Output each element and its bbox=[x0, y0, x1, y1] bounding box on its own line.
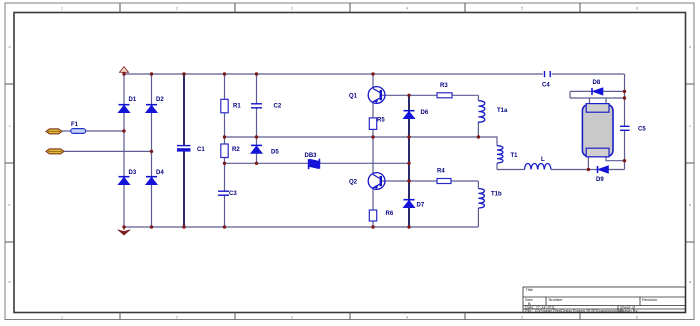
svg-text:D8: D8 bbox=[593, 80, 601, 86]
svg-text:b: b bbox=[9, 203, 11, 207]
connector P1 upper plug bbox=[46, 129, 62, 134]
wire second bridge rail bbox=[151, 74, 153, 227]
svg-text:Drawn By:: Drawn By: bbox=[620, 308, 638, 313]
node diac net 3 bbox=[407, 162, 410, 165]
svg-text:c: c bbox=[689, 124, 691, 128]
wire left bridge rail bbox=[123, 74, 125, 227]
svg-text:Title: Title bbox=[526, 287, 534, 292]
node mid rail 2 bbox=[255, 135, 258, 138]
resistor R6 bbox=[369, 210, 376, 221]
svg-text:D1: D1 bbox=[129, 97, 137, 103]
svg-text:3: 3 bbox=[291, 7, 293, 11]
resistor R5 bbox=[369, 118, 376, 129]
wire C2 upper lead bbox=[256, 74, 258, 104]
inductor T1a bbox=[478, 101, 484, 123]
wire diac net bbox=[225, 162, 410, 164]
svg-text:Q1: Q1 bbox=[349, 94, 358, 100]
svg-text:1: 1 bbox=[61, 7, 63, 11]
title block texts bbox=[525, 287, 657, 313]
svg-text:File:: File: bbox=[525, 308, 533, 313]
diode D5 bbox=[251, 145, 262, 153]
svg-text:D9: D9 bbox=[596, 177, 604, 183]
lamp filament bottom bbox=[586, 148, 609, 157]
svg-text:1: 1 bbox=[61, 316, 63, 320]
node bottom rail 6 bbox=[407, 225, 410, 228]
node top rail 3 bbox=[182, 72, 185, 75]
wire lamp bottom left bbox=[497, 169, 525, 171]
svg-text:c: c bbox=[9, 124, 11, 128]
node diac net 1 bbox=[223, 162, 226, 165]
svg-text:d: d bbox=[9, 45, 11, 49]
title block bbox=[523, 287, 686, 313]
wire Q2 base net bbox=[381, 180, 479, 182]
wire Q1 emitter R5 bbox=[372, 102, 374, 138]
zone tick left 2 bbox=[5, 162, 14, 164]
svg-text:6: 6 bbox=[636, 7, 638, 11]
svg-text:C3: C3 bbox=[229, 191, 237, 197]
zone tick bottom 5 bbox=[579, 313, 581, 320]
wire lamp top pin right bbox=[605, 98, 607, 105]
wire upper input bbox=[62, 130, 124, 132]
svg-text:D4: D4 bbox=[156, 170, 164, 176]
node bottom rail 3 bbox=[182, 225, 185, 228]
svg-text:Revision: Revision bbox=[642, 297, 657, 302]
diode D9 bbox=[598, 166, 609, 173]
lamp filament top bbox=[586, 104, 609, 113]
capacitor C1 electrolytic bbox=[177, 146, 191, 152]
svg-text:T1b: T1b bbox=[491, 192, 502, 198]
svg-text:b: b bbox=[689, 203, 691, 207]
svg-text:C1: C1 bbox=[197, 147, 205, 153]
node lamp top 2 bbox=[623, 96, 626, 99]
capacitor C4 bbox=[545, 71, 551, 77]
wire right rail lower bbox=[624, 131, 626, 170]
node bottom rail 5 bbox=[371, 225, 374, 228]
capacitor C5 bbox=[620, 126, 630, 130]
svg-text:D6: D6 bbox=[421, 110, 429, 116]
wire mid rail bbox=[225, 136, 479, 138]
node bottom rail 2 bbox=[150, 225, 153, 228]
wire R1 R2 rail bbox=[224, 74, 226, 191]
zone labels top bbox=[61, 7, 638, 11]
svg-text:D3: D3 bbox=[129, 170, 137, 176]
diode D6 bbox=[404, 111, 415, 119]
node top rail 5 bbox=[255, 72, 258, 75]
transistor Q1 bbox=[368, 87, 385, 104]
svg-text:d: d bbox=[689, 45, 691, 49]
inductor T1b bbox=[478, 189, 484, 208]
wire C3 lower lead bbox=[224, 196, 226, 228]
inductor T1 bbox=[497, 146, 503, 163]
diode D8 bbox=[592, 88, 603, 95]
svg-text:5: 5 bbox=[521, 7, 523, 11]
node top rail 2 bbox=[150, 72, 153, 75]
diode D4 bbox=[146, 177, 157, 185]
node bridge upper input bbox=[122, 129, 125, 132]
zone tick left 3 bbox=[5, 241, 14, 243]
diode D3 bbox=[119, 177, 130, 185]
resistor R4 bbox=[437, 179, 451, 184]
zone tick top 1 bbox=[119, 3, 121, 13]
inductor L bbox=[525, 164, 551, 170]
wire lamp top pin left bbox=[589, 98, 591, 105]
svg-text:R6: R6 bbox=[386, 211, 394, 217]
svg-text:C4: C4 bbox=[542, 83, 550, 89]
svg-text:C5: C5 bbox=[638, 127, 646, 133]
wire Q1 base net bbox=[381, 94, 479, 96]
svg-text:D7: D7 bbox=[417, 203, 425, 209]
capacitor C3 bbox=[218, 191, 229, 195]
diode D1 bbox=[119, 105, 130, 113]
resistor R1 bbox=[221, 99, 228, 113]
svg-text:6: 6 bbox=[636, 316, 638, 320]
svg-text:Number: Number bbox=[549, 297, 564, 302]
zone tick right 2 bbox=[686, 162, 695, 164]
zone labels left bbox=[9, 45, 11, 284]
svg-text:T1a: T1a bbox=[497, 108, 508, 114]
node top rail 1 bbox=[122, 72, 125, 75]
wire lamp bottom right bbox=[551, 169, 625, 171]
svg-text:C2: C2 bbox=[274, 104, 282, 110]
zone tick bottom 1 bbox=[119, 313, 121, 320]
svg-text:T1: T1 bbox=[511, 153, 519, 159]
zone tick top 5 bbox=[579, 3, 581, 13]
svg-text:R4: R4 bbox=[437, 169, 445, 175]
svg-text:D:\Program Files\Design Explor: D:\Program Files\Design Explorer 99 SE\E… bbox=[535, 309, 623, 313]
svg-text:4: 4 bbox=[406, 316, 408, 320]
zone tick bottom 4 bbox=[464, 313, 466, 320]
ground bbox=[118, 227, 131, 235]
node mid rail 3 bbox=[371, 135, 374, 138]
zone tick bottom 2 bbox=[234, 313, 236, 320]
node mid rail 4 bbox=[407, 135, 410, 138]
svg-text:Q2: Q2 bbox=[349, 180, 358, 186]
transistor Q2 bbox=[368, 173, 385, 190]
node lamp bottom left bbox=[587, 168, 590, 171]
resistor R2 bbox=[221, 144, 228, 158]
zone labels bottom bbox=[61, 316, 638, 320]
node Q1 base bbox=[407, 94, 410, 97]
zone tick right 3 bbox=[686, 241, 695, 243]
svg-text:D5: D5 bbox=[271, 150, 279, 156]
wire right rail upper bbox=[624, 74, 626, 126]
wire C1 rail lower bbox=[183, 152, 185, 228]
lamp tube bbox=[582, 105, 613, 157]
node lamp top 1 bbox=[623, 90, 626, 93]
wire Q2 collector bbox=[372, 137, 374, 175]
fuse F1 bbox=[71, 129, 86, 134]
capacitor C2 bbox=[251, 104, 262, 108]
diode D2 bbox=[146, 105, 157, 113]
svg-text:2: 2 bbox=[176, 7, 178, 11]
svg-text:2: 2 bbox=[176, 316, 178, 320]
wire T1a bottom lead bbox=[477, 122, 479, 138]
svg-text:D2: D2 bbox=[156, 97, 164, 103]
svg-text:4: 4 bbox=[406, 7, 408, 11]
svg-text:R1: R1 bbox=[233, 104, 241, 110]
wire T1b bottom lead bbox=[477, 208, 479, 227]
power port VCC bbox=[120, 67, 129, 74]
node top rail 6 bbox=[371, 72, 374, 75]
connector P2 lower plug bbox=[46, 149, 64, 154]
wire C2 D5 lead bbox=[256, 108, 258, 163]
svg-text:3: 3 bbox=[291, 316, 293, 320]
wire lamp diode top bbox=[570, 90, 625, 92]
wire lower input bbox=[64, 150, 152, 152]
node diac net 2 bbox=[255, 162, 258, 165]
wire lamp bottom pin right bbox=[606, 157, 625, 161]
wire lamp bracket bbox=[569, 91, 571, 98]
wire bottom rail bbox=[124, 226, 478, 228]
node bottom rail 1 bbox=[122, 225, 125, 228]
wire Q2 emitter R6 bbox=[372, 188, 374, 228]
wire top rail right of C4 bbox=[552, 73, 625, 75]
diode D7 bbox=[404, 200, 415, 208]
svg-text:R2: R2 bbox=[232, 147, 240, 153]
wire D6 D7 rail bbox=[408, 95, 410, 227]
zone tick bottom 3 bbox=[349, 313, 351, 320]
wire T1a top lead bbox=[477, 95, 479, 100]
zone tick left 1 bbox=[5, 83, 14, 85]
node mid rail 5 bbox=[477, 135, 480, 138]
zone labels right bbox=[689, 45, 691, 284]
wire T1b top lead bbox=[477, 181, 479, 189]
node Q2 base bbox=[407, 179, 410, 182]
node bridge lower input bbox=[150, 150, 153, 153]
wire lamp pins top bbox=[570, 97, 625, 99]
svg-text:F1: F1 bbox=[71, 122, 79, 128]
wire lamp bottom pin left bbox=[587, 157, 589, 170]
node top rail 4 bbox=[223, 72, 226, 75]
zone tick top 2 bbox=[234, 3, 236, 13]
wire C1 rail upper bbox=[183, 74, 185, 146]
svg-text:R3: R3 bbox=[440, 83, 448, 89]
wire top rail left of C4 bbox=[124, 73, 543, 75]
svg-text:R5: R5 bbox=[377, 118, 385, 124]
diac DB3 bbox=[308, 159, 321, 170]
wire T1 bottom lead bbox=[496, 163, 498, 170]
wire Q1 collector bbox=[372, 74, 374, 89]
wire T1 link bbox=[478, 137, 497, 146]
node lamp right pin bbox=[623, 159, 626, 162]
svg-text:L: L bbox=[541, 157, 545, 163]
zone tick right 1 bbox=[686, 83, 695, 85]
node bottom rail 4 bbox=[223, 225, 226, 228]
node mid rail 1 bbox=[223, 135, 226, 138]
svg-text:a: a bbox=[9, 280, 11, 284]
svg-text:5: 5 bbox=[521, 316, 523, 320]
svg-text:DB3: DB3 bbox=[305, 153, 318, 159]
zone tick top 3 bbox=[349, 3, 351, 13]
zone tick top 4 bbox=[464, 3, 466, 13]
resistor R3 bbox=[437, 93, 452, 98]
svg-text:a: a bbox=[689, 280, 691, 284]
